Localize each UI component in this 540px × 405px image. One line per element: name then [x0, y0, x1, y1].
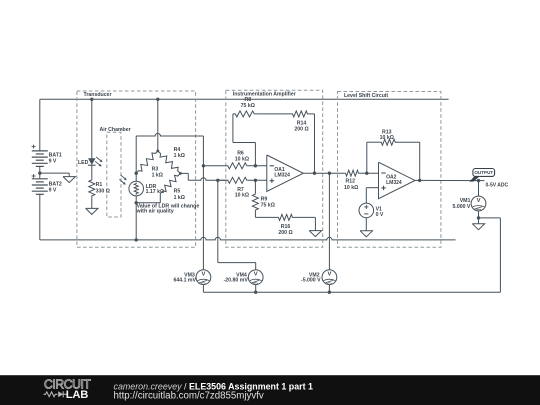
svg-text:BAT2: BAT2: [49, 181, 62, 187]
node feedback joins output: [418, 179, 421, 182]
svg-text:9 V: 9 V: [49, 188, 57, 194]
svg-text:10 kΩ: 10 kΩ: [344, 185, 358, 191]
svg-text:10 kΩ: 10 kΩ: [235, 156, 249, 162]
wire R6 to OA1 inverting input: [248, 165, 267, 167]
svg-text:0-5V ADC: 0-5V ADC: [486, 183, 509, 189]
svg-text:OUTPUT: OUTPUT: [474, 170, 493, 175]
LDR light arrows: [120, 175, 124, 179]
wire VM4 bottom: [255, 285, 257, 293]
svg-text:R3: R3: [152, 166, 159, 172]
node bridge left: [135, 172, 138, 175]
wire LED to R1: [91, 165, 93, 178]
svg-text:R1: R1: [96, 182, 103, 188]
wire R7 to OA1 non-inverting input: [248, 179, 267, 181]
svg-text:10 kΩ: 10 kΩ: [235, 193, 249, 199]
svg-text:-20.80 mV: -20.80 mV: [224, 278, 249, 284]
enclosure Level Shift Circuit: [338, 92, 441, 248]
node output to VM1: [477, 179, 480, 182]
svg-text:V: V: [201, 272, 205, 278]
node battery midpoint: [38, 171, 41, 174]
voltage source V1 0V: [366, 187, 378, 189]
resistor R9 75k: [254, 180, 256, 193]
photoresistor LDR 1.17k: [135, 173, 137, 181]
node LDR bottom: [135, 201, 138, 204]
svg-text:R4: R4: [174, 147, 181, 153]
wire VM4 tap down with jog: [217, 180, 219, 262]
wire bridge left node to R6 line (hop over bridge stem): [135, 136, 137, 173]
svg-text:9 V: 9 V: [49, 159, 57, 165]
wire R12 to OA2 inverting input: [360, 172, 379, 174]
svg-text:75 kΩ: 75 kΩ: [241, 103, 255, 109]
svg-text:LM324: LM324: [386, 180, 402, 186]
node R7 input tap: [216, 179, 219, 182]
node bridge top: [156, 150, 159, 153]
resistor R16 200 Ohm: [277, 214, 293, 220]
svg-text:V: V: [254, 272, 258, 278]
op-amp OA2 LM324: [379, 162, 416, 199]
voltmeter VM3 644.1 mV: [196, 270, 211, 285]
wire OA1 output: [303, 172, 344, 174]
svg-text:200 Ω: 200 Ω: [294, 127, 308, 133]
wire output down to VM1: [478, 181, 480, 197]
wire top rail to LED: [91, 99, 93, 158]
svg-text:-5.000 V: -5.000 V: [301, 278, 321, 284]
voltmeter VM4 -20.80 mV: [248, 270, 263, 285]
svg-text:LAB: LAB: [66, 389, 89, 401]
svg-text:LM324: LM324: [274, 173, 290, 179]
wire R14 to output node: [310, 113, 315, 115]
resistor R3 1k (top-left arm): [136, 151, 158, 173]
resistor R13 10k (feedback): [366, 142, 368, 173]
svg-text:200 Ω: 200 Ω: [278, 230, 292, 236]
node OA2 inverting: [365, 172, 368, 175]
battery BAT1 9V: [39, 99, 41, 151]
svg-text:BAT1: BAT1: [49, 152, 62, 158]
node bridge right: [179, 172, 182, 175]
ground battery midpoint: [63, 177, 75, 183]
enclosure Air Chamber: [107, 132, 121, 217]
battery BAT2 9V: [39, 173, 41, 179]
enclosure Instrumentation Amplifier: [226, 90, 323, 247]
svg-text:10 kΩ: 10 kΩ: [380, 135, 394, 141]
resistor R4 1k (top-right arm): [158, 151, 181, 174]
wire rail to bridge top: [157, 99, 159, 151]
resistor R5 1k (bottom-right arm): [160, 173, 180, 193]
svg-text:R12: R12: [346, 179, 356, 185]
voltmeter VM1 5.000 V: [471, 196, 486, 211]
svg-text:http://circuitlab.com/c7zd855m: http://circuitlab.com/c7zd855mjyvfv: [114, 391, 264, 402]
wire bridge right node to R7 line: [180, 172, 188, 174]
svg-text:with air quality: with air quality: [136, 209, 174, 215]
resistor R12 10k: [344, 170, 360, 176]
flag OUTPUT: [469, 176, 479, 181]
wire R9 to R16: [254, 211, 256, 218]
ground V1: [360, 231, 372, 237]
ground R16: [309, 231, 321, 237]
wire VM3 bottom: [202, 285, 204, 293]
resistor R6 10k: [203, 165, 227, 167]
op-amp OA1 LM324: [267, 155, 304, 192]
svg-text:Transducer: Transducer: [84, 92, 112, 98]
wire R8 left to inverting node: [232, 114, 234, 143]
svg-text:LED: LED: [78, 160, 89, 166]
footer bar: [0, 375, 540, 405]
node VM1 bottom: [477, 216, 480, 219]
wire VM1 to ground node: [478, 211, 480, 224]
svg-text:0 V: 0 V: [376, 212, 384, 218]
resistor R7 10k: [218, 179, 227, 181]
node OA1 feedback tap: [313, 172, 316, 175]
wire OA2 output: [415, 179, 485, 181]
diode LED D1: [88, 158, 96, 165]
node LED branch on top rail: [90, 98, 93, 101]
ground VM1: [472, 224, 484, 230]
ground LED branch: [86, 208, 98, 214]
svg-text:R5: R5: [174, 189, 181, 195]
node R6 input tap: [202, 164, 205, 167]
svg-text:75 kΩ: 75 kΩ: [261, 202, 275, 208]
svg-text:5.000 V: 5.000 V: [453, 204, 471, 210]
resistor R1 330 Ohm: [89, 179, 95, 198]
enclosure Transducer: [77, 91, 196, 247]
svg-text:644.1 mV: 644.1 mV: [174, 278, 197, 284]
wire R13 to output: [398, 141, 420, 143]
wire top +9V rail: [40, 98, 449, 100]
svg-text:1 kΩ: 1 kΩ: [174, 153, 185, 159]
resistor R14 200 Ohm (feedback): [257, 113, 291, 115]
wire R1 to ground: [91, 197, 93, 208]
wire VM3 tap down: [202, 166, 204, 270]
wire to ground from battery midpoint: [40, 172, 69, 174]
wire VM1 node to meter return bus: [479, 217, 501, 219]
svg-text:Air Chamber: Air Chamber: [100, 127, 131, 133]
svg-text:1 kΩ: 1 kΩ: [174, 195, 185, 201]
voltmeter VM2 -5.000 V: [322, 270, 337, 285]
svg-text:Level Shift Circuit: Level Shift Circuit: [344, 93, 388, 99]
svg-text:V: V: [327, 272, 331, 278]
wire VM2 bottom: [328, 285, 330, 293]
svg-text:Instrumentation Amplifier: Instrumentation Amplifier: [233, 91, 296, 97]
node VM2 tap: [328, 172, 331, 175]
svg-text:330 Ω: 330 Ω: [96, 188, 110, 194]
wire VM2 tap down: [328, 173, 330, 270]
wire V1 to ground: [365, 218, 367, 231]
node bridge top on rail: [156, 98, 159, 101]
wire bridge bottom to LDR bottom: [159, 194, 161, 203]
wire R16 to ground: [294, 216, 316, 218]
svg-text:1 kΩ: 1 kΩ: [152, 173, 163, 179]
resistor R8 75k (feedback): [233, 111, 257, 117]
wire bridge bottom to -9V rail: [135, 203, 137, 240]
wire bottom -9V rail: [40, 237, 456, 240]
svg-text:V: V: [477, 198, 481, 204]
